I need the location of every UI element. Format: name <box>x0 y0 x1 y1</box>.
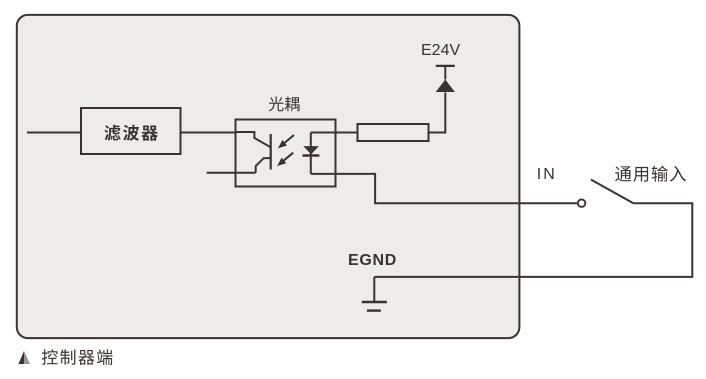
optocoupler label 光耦 <box>269 97 300 112</box>
wire: LED cathode to IN terminal <box>311 174 577 203</box>
light arrow 1 <box>278 135 294 148</box>
ground EGND symbol <box>362 277 387 311</box>
optocoupler LED branch wire <box>310 133 312 174</box>
wire: resistor to E24V diode <box>429 93 446 133</box>
optocoupler body box <box>236 120 336 187</box>
light arrow 2 <box>277 153 293 166</box>
phototransistor base bar <box>270 134 272 170</box>
filter block (滤波器) box <box>81 108 181 154</box>
svg-text:E24V: E24V <box>421 42 460 59</box>
wire: filter to optocoupler <box>181 132 236 134</box>
controller enclosure box <box>17 15 520 338</box>
wire: switch to EGND rail <box>374 203 692 277</box>
filter label 滤波器 <box>104 125 158 141</box>
wire: input lead to filter <box>27 132 81 134</box>
switch blade (通用输入 contact) <box>591 180 633 204</box>
caption marker (two-tone triangle) <box>18 351 30 364</box>
wire: optocoupler emitter output stub <box>207 172 256 174</box>
terminal IN (open circle) <box>578 199 586 207</box>
wire: LED anode to resistor <box>311 132 358 134</box>
svg-text:IN: IN <box>537 166 557 183</box>
phototransistor collector lead <box>236 132 271 147</box>
resistor R (box style) <box>358 124 429 141</box>
phototransistor emitter lead <box>256 158 271 173</box>
optocoupler LED cathode bar <box>303 154 320 156</box>
diode D to E24V (anode up) <box>436 66 455 92</box>
svg-text:EGND: EGND <box>348 252 397 269</box>
switch label 通用输入 <box>615 166 686 182</box>
caption text 控制器端 <box>42 349 113 365</box>
optocoupler LED triangle (cathode down) <box>303 146 319 154</box>
